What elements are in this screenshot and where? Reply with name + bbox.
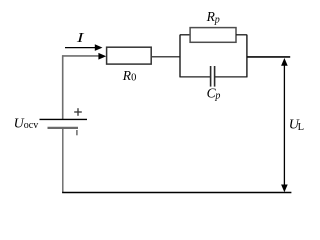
wire: output horizontal from block to right end <box>247 56 290 58</box>
current arrow I <box>65 44 103 51</box>
label U_ocv <box>14 117 39 132</box>
wire: R0 to parallel block <box>152 56 181 58</box>
node: parallel block left vertical <box>179 35 181 78</box>
battery U_ocv negative plate <box>48 127 79 129</box>
capacitor Cp <box>211 66 215 87</box>
battery - terminal marker <box>76 130 78 135</box>
wire arrowhead entering R0 <box>98 53 106 60</box>
svg-text:I: I <box>75 31 85 46</box>
wire: capacitor branch left segment <box>180 76 210 78</box>
label Cp <box>207 86 221 102</box>
wire: capacitor branch right segment <box>215 76 247 78</box>
voltage arrow U_L (double-headed vertical) <box>281 58 288 192</box>
wire: stub Rp box to right vertical <box>236 34 247 36</box>
label U_L <box>289 117 304 133</box>
battery U_ocv positive plate <box>40 118 88 120</box>
battery + terminal marker <box>74 108 82 116</box>
wire: top-left horizontal from battery branch corner to R0 <box>62 55 99 57</box>
wire: left vertical from top rail down to battery positive plate <box>62 55 64 119</box>
resistor Rp <box>190 28 236 43</box>
svg-text:p: p <box>214 90 220 101</box>
wire: bottom rail <box>62 192 291 194</box>
resistor R0 <box>107 47 152 64</box>
wire: stub left vertical to Rp box <box>180 34 190 36</box>
svg-text:0: 0 <box>131 73 136 84</box>
node: parallel block right vertical <box>246 35 248 78</box>
label Rp <box>206 9 220 25</box>
svg-text:ocv: ocv <box>24 120 38 131</box>
label R0 <box>122 68 137 84</box>
wire: left vertical from battery negative plate to bottom rail <box>62 128 64 193</box>
svg-text:L: L <box>298 122 304 133</box>
svg-text:p: p <box>214 14 220 25</box>
